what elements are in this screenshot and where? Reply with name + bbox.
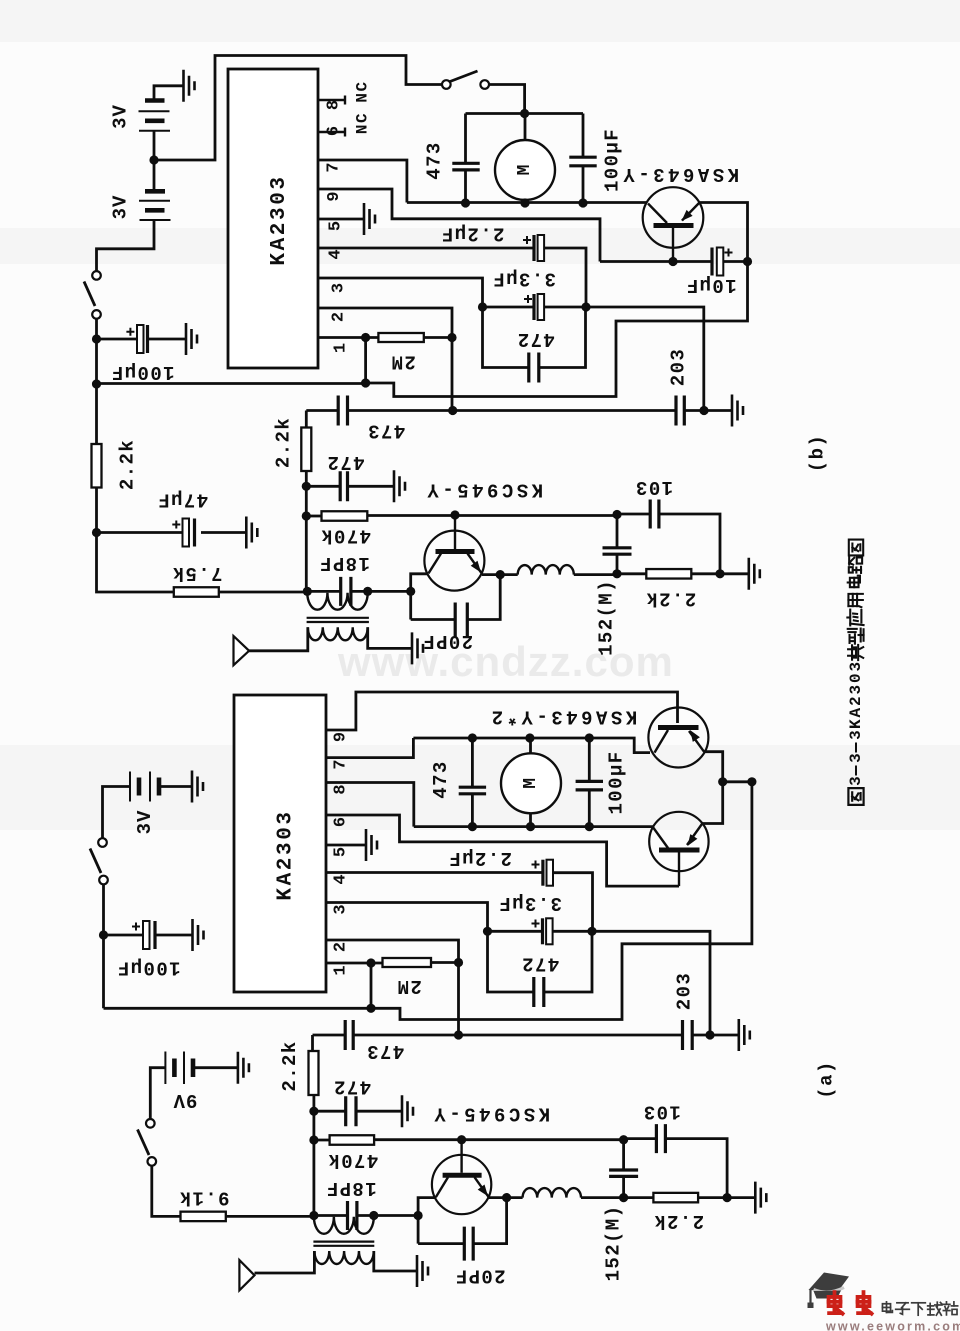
pin3 wire [318,278,483,307]
wire 473 cap branch bottom [464,170,467,203]
svg-text:3: 3 [847,776,865,786]
battery B4 9V [164,1052,166,1085]
resistor R2 7.5k [174,587,219,597]
wire 100uF branch top [582,114,585,158]
wire row down to R4 [305,411,308,428]
pin5 wire to ground [318,218,364,221]
ground at C2 [246,517,257,549]
secondary left lead [249,627,308,651]
switch S4 contact b [148,1157,157,1166]
node feedback row left [92,379,101,388]
pin9 wire [318,189,600,262]
motor stub bottom (a) [529,813,532,827]
transistor Q5 KSC945-Y [432,1155,491,1214]
caption dash [855,743,857,753]
svg-text:7: 7 [325,162,344,172]
wire R4 to 472 row [305,471,308,486]
row 203 to ground (a) [692,1034,739,1037]
svg-text:8: 8 [325,100,344,110]
svg-text:9: 9 [332,732,351,742]
Q3 emitter arrow [690,730,700,742]
svg-text:2.2μF: 2.2μF [448,847,512,869]
svg-text:2.2k: 2.2k [653,1210,704,1232]
3.3uF row right (a) [553,931,710,1034]
node 472 row (a) [309,1107,318,1116]
svg-text:1: 1 [332,343,351,353]
node pin1 [361,333,370,342]
capacitor C25 20PF [464,1227,473,1261]
switch S1 lever [84,282,95,307]
row 473/203 mid segment (a) [353,1034,682,1037]
svg-text:3: 3 [330,283,349,293]
wire B2 bottom to switch S1 [97,220,155,271]
Q3 emitter wire [704,752,723,782]
wire 100uF branch bottom [582,166,585,203]
svg-text:100μF: 100μF [606,750,628,814]
Q4 collector lead [653,827,668,848]
antenna ANT2 [239,1260,254,1290]
output column down [104,782,752,1020]
Q2 collector wire [411,574,429,620]
svg-text:472: 472 [333,1076,371,1098]
svg-text:3.3μF: 3.3μF [492,268,556,290]
node output column (a) [747,777,756,786]
3.3uF row right [544,307,704,410]
node output junction [743,257,752,266]
caption char 电 [848,576,860,588]
capacitor C5 10uF [710,248,713,276]
node R10 right [723,1193,732,1202]
caption char 应 [847,610,863,626]
svg-text:3: 3 [332,904,351,914]
pin5 wire to ground (a) [326,844,366,847]
junction pin2-row [448,406,457,415]
output wire down-left loop [366,262,748,397]
node 100uF row [92,334,101,343]
node 100uF row (a) [99,930,108,939]
svg-text:472: 472 [516,328,554,350]
resistor R8 2.2k [309,1051,319,1095]
ground at B4 [238,1052,249,1084]
row 473/203 left segment (a) [313,1034,346,1037]
pin6 wire to Q4 base [326,815,679,886]
ground at pin5 [364,203,375,235]
wire row down to R8 (a) [311,1035,314,1051]
Q2 base bar [436,549,475,554]
svg-text:M: M [515,165,535,176]
logo char 子 [896,1303,910,1314]
wire node down to 7.5k row [97,533,174,593]
transistor Q2 KSC945-Y [424,531,484,591]
transformer T1 secondary [308,627,368,640]
ground at C16 [193,919,204,951]
svg-text:9.1k: 9.1k [178,1187,229,1209]
junction 100uFa bottom [585,822,594,831]
base row wire [600,260,712,263]
pin1 wire (a) [326,962,383,965]
wire S4 down to 9.1k row [152,1166,181,1217]
wire C16 to ground [155,934,193,937]
svg-text:(b): (b) [807,434,829,472]
svg-text:20PF: 20PF [422,630,473,652]
470k to base row (a) [374,1138,623,1141]
capacitor C18 100uF [576,781,603,790]
wire 473 cap branch top [464,114,467,164]
svg-text:10μF: 10μF [685,274,736,296]
svg-text:2.2k: 2.2k [645,588,696,610]
capacitor C9 473 [338,396,347,426]
node R6 right [715,569,724,578]
Q4 base lead [678,853,680,887]
output row 2.2k [617,572,646,575]
motor top rail (a) [413,738,650,753]
Q5 base bar [443,1173,482,1178]
svg-text:NC: NC [354,112,372,134]
secondary right lead [368,627,412,648]
100uFa branch [588,738,591,827]
svg-text:3: 3 [847,753,865,763]
wire node to C16 [104,934,144,937]
pin3 wire (a) [326,903,488,932]
caption char 用 [848,594,862,607]
svg-text:www.cndzz.com: www.cndzz.com [337,638,674,685]
row R6 to ground [691,572,749,575]
capacitor C22 473 [345,1020,353,1050]
svg-text:470k: 470k [320,524,371,546]
svg-text:152(M): 152(M) [603,1205,625,1282]
pin 6 stub (NC) [318,128,345,137]
svg-text:KA2303: KA2303 [275,809,298,900]
ground at R10 [755,1182,766,1214]
svg-text:472: 472 [521,953,559,975]
svg-text:203: 203 [668,348,690,386]
wire pin1 node down (a) [370,963,373,1008]
motor M2 [501,753,561,813]
svg-text:2.2k: 2.2k [273,417,295,468]
svg-text:KA2303: KA2303 [847,660,865,729]
wire node down left rail [95,339,98,384]
ground at battery B3 [192,771,203,803]
152 branch top [616,515,619,548]
svg-text:473: 473 [366,1040,404,1062]
node Q5 base [457,1135,466,1144]
svg-text:3V: 3V [110,104,132,129]
svg-text:KSA643-Y*2: KSA643-Y*2 [488,706,637,728]
caption dash [855,766,857,776]
capacitor C26 152 [609,1170,638,1176]
node primary left [303,587,312,596]
node 152 bottom [612,569,621,578]
junction 203-3.3uF column [699,406,708,415]
Q3 emitter lead [689,731,704,752]
node emitter (a) [502,1193,511,1202]
secondary left lead (a) [255,1251,315,1273]
472 row wire (a) [314,1110,402,1113]
IC U1 KA2303 (circuit b) [228,69,318,368]
motor bottom rail [407,201,647,204]
node primary right [363,587,372,596]
ground at secondary [412,632,423,664]
junction 203 column (a) [705,1030,714,1039]
Q2 emitter arrow [471,561,481,573]
resistor R6 2.2k [646,569,691,579]
long feedback wire [97,382,366,385]
pin8 wire to bottom rail [326,783,414,827]
node collector-transformer (a) [414,1211,423,1220]
Q1 base bar [654,223,694,228]
wire S2 to motor rail [489,85,525,114]
svg-text:203: 203 [673,972,695,1010]
Q4 base bar [659,848,700,853]
row 203 to ground [684,409,732,412]
inductor L1 [518,565,574,575]
svg-text:47μF: 47μF [157,489,208,511]
capacitor C28 18PF [348,1201,357,1230]
pin1 wire [318,336,378,339]
wire battery B1 top to ground [154,86,184,101]
3.3uF row left (a) [488,930,543,933]
transformer T2 primary [314,1217,374,1234]
capacitor C1 100uF [146,325,149,353]
capacitor C20 3.3uF [541,918,544,944]
Q1 emitter arrow [682,210,693,221]
18PF row (a) [314,1214,418,1217]
Q5 emitter arrow [478,1185,488,1197]
svg-text:470k: 470k [327,1149,378,1171]
column to transformer row [305,516,308,591]
svg-text:3V: 3V [110,195,132,220]
capacitor C4 100uF [569,157,596,166]
svg-text:KSC945-Y: KSC945-Y [431,1103,550,1125]
resistor R3 2M [378,333,423,342]
svg-text:2: 2 [330,312,349,322]
capacitor C7 3.3uF [532,294,535,320]
capacitor C21 472 [534,977,544,1007]
node collector-transformer [406,587,415,596]
473a branch [471,738,474,827]
wire node to top rail [154,56,442,161]
20PF row [411,575,501,620]
inductor L2 [523,1188,581,1198]
node pin1 (a) [366,958,375,967]
wire node to R1 [95,384,98,444]
capacitor C12 20PF [455,603,467,637]
column to transformer row (a) [312,1140,315,1216]
svg-text:103: 103 [635,476,673,498]
node 47uF row [92,528,101,537]
472 row wire [306,485,394,488]
152 branch (a) [622,1140,625,1198]
svg-text:5: 5 [332,847,351,857]
wire 2.2uF right [544,248,586,307]
470k to base row [367,514,617,517]
ground at 472 (a) [402,1095,413,1127]
junction 100uF bottom [578,198,587,207]
logo char 载 [928,1302,942,1315]
transistor Q4 KSA643-Y [649,812,708,871]
svg-text:7.5k: 7.5k [171,562,222,584]
svg-text:KA2303: KA2303 [268,174,291,265]
wire B2 top [153,160,156,191]
Q1 collector lead [648,204,667,224]
node 2M right (a) [454,958,463,967]
battery B1 3V [145,98,165,103]
node 2M right [447,333,456,342]
capacitor C24 472 [346,1096,356,1126]
svg-text:473: 473 [430,760,452,798]
Q3 base bar [658,725,699,730]
caption char 典 [848,645,863,660]
103 row [617,514,720,574]
pin4 wire to 2.2uF [318,247,534,250]
transformer T2 core [313,1242,374,1246]
battery B2 3V [145,189,165,194]
column to 470k row (a) [312,1111,315,1140]
svg-text:473: 473 [424,141,446,179]
Q3 collector lead [655,730,669,753]
ground at 203 [732,395,743,427]
switch S2 lever [450,71,478,82]
wire L1 to 152 node [574,573,617,576]
svg-text:9V: 9V [173,1089,198,1111]
wire L2 to 152 node (a) [581,1196,624,1199]
logo cap stripe [814,1288,845,1293]
junction pin2-row (a) [454,1030,463,1039]
18PF row [307,590,410,593]
caption char 图 (top) [849,540,863,556]
switch S4 contact a [146,1119,155,1128]
emitter down to Q4 [702,782,722,824]
junction motor bottom (a) [526,822,535,831]
node pin1 column (a) [366,1004,375,1013]
svg-text:20PF: 20PF [454,1265,505,1287]
row 473/203 left segment [306,409,338,412]
capacitor C10 203 [676,396,684,426]
pin7 wire to motor rail [326,738,413,758]
caption char 图 (bottom) [848,788,863,805]
Q2 base lead [454,515,456,549]
20PF row (a) [418,1198,507,1244]
wire 10uF to output [723,260,747,263]
wire node to 470k (a) [314,1139,330,1142]
junction motor top (a) [525,733,534,742]
wire node to C2 [97,531,183,534]
transistor Q1 KSA643-Y [643,187,704,248]
capacitor C27 103 [656,1124,665,1153]
pin9 wire to T-base rail [326,692,678,730]
motor stub top (a) [529,738,532,754]
switch S2 contact b [480,80,489,89]
motor stub top [524,114,527,141]
node 470k row [302,511,311,520]
svg-text:3: 3 [847,730,865,740]
node Q1 base junction [668,257,677,266]
svg-text:M: M [521,778,541,789]
pin2 wire [318,308,452,411]
junction 473a top [468,733,477,742]
svg-text:5: 5 [327,221,346,231]
switch S2 contact a [442,80,451,89]
node primary left (a) [309,1211,318,1220]
ground at secondary (a) [417,1255,428,1287]
Q5 emitter lead [475,1177,490,1197]
svg-text:100μF: 100μF [110,361,174,383]
wire 2.2uF right (a) [553,873,593,932]
Q4 emitter lead [687,824,702,846]
junction 100uFa top [585,733,594,742]
Q2 emitter wire [482,573,518,576]
svg-text:4: 4 [327,249,346,259]
472 loop [483,307,586,368]
logo graduation cap board [809,1273,850,1292]
switch S3 contact b [99,876,108,885]
wire B1 bottom to node [153,131,156,160]
logo char 站 [943,1302,957,1315]
row R10 to ground [698,1196,755,1199]
capacitor C23 203 [683,1020,693,1050]
svg-text:2: 2 [332,942,351,952]
caption char 型 [848,629,864,644]
pin7 wire to motor bottom rail [318,160,407,203]
svg-text:3V: 3V [134,810,156,835]
node 103/152 top (a) [619,1135,628,1144]
wire R8 to 472 row (a) [312,1095,315,1111]
ground at R6 [749,558,760,590]
antenna ANT1 [234,636,250,665]
node feedback pin1 column [361,378,370,387]
svg-text:4: 4 [332,874,351,884]
resistor R11 9.1k [181,1212,226,1222]
capacitor C8 472 [529,353,539,383]
capacitor C17 473 [459,787,486,794]
logo char 下 [912,1303,926,1315]
transformer T1 primary [307,593,367,610]
wire B4 to ground [193,1066,238,1069]
junction 473a bottom [468,822,477,831]
node motor rail top [520,109,529,118]
resistor R10 2.2k [653,1193,698,1203]
node battery midpoint [149,155,158,164]
svg-text:(a): (a) [816,1060,838,1098]
472 loop (a) [488,931,593,992]
pin2 wire (a) [326,940,459,1035]
wire R2 to transformer [219,591,307,594]
wire C1 to ground [148,338,187,341]
node 3.3uF left [478,302,487,311]
logo char 虫 (2) [858,1292,872,1314]
column to 470k row [305,486,308,516]
IC U2 KA2303 (circuit a) [234,695,326,992]
Q1 base lead [672,228,674,262]
battery B3 3V [129,772,131,802]
pin 8 stub (NC) [318,96,345,105]
wire 2M to pin2 column [424,336,452,339]
resistor R5 470k [322,511,368,521]
svg-text:NC: NC [354,80,372,102]
Q2 collector lead [429,554,442,574]
resistor R1 2.2k [92,444,102,488]
logo char 电 [882,1302,892,1313]
svg-text:152(M): 152(M) [595,579,617,656]
svg-text:7: 7 [332,759,351,769]
svg-text:472: 472 [326,451,364,473]
svg-text:2M: 2M [396,975,422,997]
node 152 bottom (a) [619,1193,628,1202]
Q5 emitter wire [489,1196,523,1199]
node 3.3uF left (a) [483,927,492,936]
capacitor C11 472 [340,471,347,501]
wire C2 to ground [201,531,246,534]
